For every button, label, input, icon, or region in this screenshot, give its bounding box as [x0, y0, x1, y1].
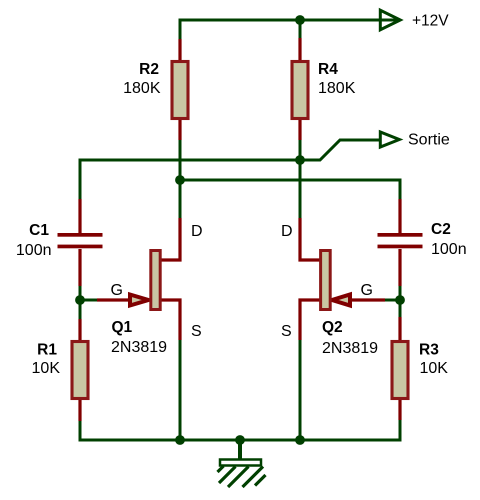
net label Sortie — [408, 132, 450, 149]
svg-text:S: S — [281, 323, 292, 340]
pin label S of Q1 — [191, 323, 202, 340]
label R3 — [419, 341, 439, 358]
svg-text:180K: 180K — [123, 80, 161, 97]
capacitor C1 — [58, 233, 103, 248]
value 180K of R2 — [123, 80, 161, 97]
svg-text:C2: C2 — [431, 221, 451, 238]
svg-text:2N3819: 2N3819 — [322, 340, 378, 357]
value 180K of R4 — [318, 80, 356, 97]
svg-text:D: D — [281, 223, 293, 240]
pin label D of Q2 — [281, 223, 293, 240]
wire right gate node horizontal — [384, 299, 400, 302]
wire sortie dogleg to output terminal — [300, 140, 380, 160]
wire Q1 source vertical to bottom rail — [179, 338, 182, 440]
net label +12V — [412, 13, 449, 30]
svg-text:C1: C1 — [29, 222, 49, 239]
wire bottom rail — [80, 419, 400, 440]
label Q2 — [322, 319, 343, 336]
resistor R4 pins — [298, 38, 301, 140]
value 2N3819 of Q1 — [111, 339, 167, 356]
transistor Q1 source pin — [159, 300, 180, 340]
svg-text:100n: 100n — [431, 241, 467, 258]
resistor R1 pins — [78, 319, 81, 421]
+12V power terminal arrow — [380, 10, 400, 30]
Sortie output terminal arrow — [380, 132, 399, 147]
wire left gate node verticals — [79, 284, 82, 322]
label R2 — [139, 61, 159, 78]
capacitor C2 pins — [398, 199, 401, 286]
pin label G of Q2 — [361, 282, 373, 299]
svg-text:10K: 10K — [420, 360, 449, 377]
node junction dot bottom right — [295, 435, 305, 445]
svg-text:+12V: +12V — [412, 13, 449, 30]
transistor Q1 gate pin — [97, 298, 131, 301]
wire R4 top stub — [299, 20, 302, 40]
svg-text:R4: R4 — [318, 61, 338, 78]
transistor Q2 gate pin — [349, 298, 385, 301]
label R1 — [37, 341, 57, 358]
svg-text:S: S — [191, 323, 202, 340]
pin label G of Q1 — [111, 282, 123, 299]
node junction dot left gate — [75, 295, 85, 305]
svg-text:Q2: Q2 — [322, 319, 343, 336]
resistor R2 pins — [178, 39, 181, 140]
svg-text:Sortie: Sortie — [408, 132, 450, 149]
svg-text:10K: 10K — [32, 360, 61, 377]
svg-text:G: G — [111, 282, 123, 299]
ground — [218, 440, 266, 487]
svg-text:G: G — [361, 282, 373, 299]
value 100n of C2 — [431, 241, 467, 258]
resistor R2 — [172, 62, 188, 119]
transistor Q2 body bar — [321, 251, 331, 310]
wire R4 bottom vertical down to Q2 drain — [299, 139, 302, 220]
svg-text:2N3819: 2N3819 — [111, 339, 167, 356]
transistor Q2 gate arrow — [332, 295, 350, 306]
pin label D of Q1 — [191, 223, 203, 240]
transistor Q2 source pin — [300, 300, 321, 340]
svg-text:D: D — [191, 223, 203, 240]
wire line2 from node at x=180 across to right column down to C2 — [180, 180, 400, 201]
transistor Q1 gate arrow — [130, 295, 149, 306]
node junction dot bottom center — [235, 435, 245, 445]
wire Q2 source vertical to bottom rail — [299, 338, 302, 440]
capacitor C2 — [378, 233, 423, 248]
value 10K of R3 — [420, 360, 449, 377]
wire right gate node verticals — [399, 284, 402, 320]
value 2N3819 of Q2 — [322, 340, 378, 357]
svg-text:R3: R3 — [419, 341, 439, 358]
node junction dot line2 left — [175, 175, 185, 185]
transistor Q1 body bar — [151, 251, 160, 310]
svg-text:R2: R2 — [139, 61, 159, 78]
capacitor C1 pins — [78, 199, 81, 286]
label C2 — [431, 221, 451, 238]
svg-text:100n: 100n — [16, 242, 52, 259]
label Q1 — [112, 319, 133, 336]
svg-text:180K: 180K — [318, 80, 356, 97]
wire R2 bottom vertical down to line2 — [179, 139, 182, 220]
value 10K of R1 — [32, 360, 61, 377]
pin label S of Q2 — [281, 323, 292, 340]
node junction dot sortie — [295, 155, 305, 165]
resistor R3 — [392, 342, 408, 399]
node junction dot bottom left — [175, 435, 185, 445]
transistor Q1 drain pin — [159, 218, 180, 260]
resistor R3 pins — [398, 317, 401, 420]
svg-text:R1: R1 — [37, 341, 57, 358]
label C1 — [29, 222, 49, 239]
svg-text:Q1: Q1 — [112, 319, 133, 336]
resistor R1 — [72, 342, 88, 399]
wire line1 from C1 column to sortie node — [80, 160, 300, 201]
wire left gate node horizontal — [80, 299, 98, 302]
node junction dot right gate — [395, 295, 405, 305]
node junction dot top rail at R4 — [295, 15, 305, 25]
resistor R4 — [292, 62, 308, 119]
label R4 — [318, 61, 338, 78]
wire top rail from R2 top to +12V terminal — [180, 20, 397, 40]
transistor Q2 drain pin — [300, 218, 321, 260]
value 100n of C1 — [16, 242, 52, 259]
